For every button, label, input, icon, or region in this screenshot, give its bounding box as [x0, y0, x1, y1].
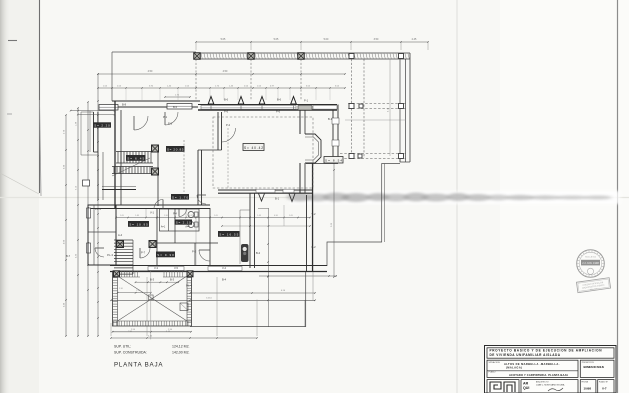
- pergola hatched column C: [298, 53, 305, 60]
- terrace interior dim rows: [136, 281, 179, 283]
- pergola row3 columns: [349, 154, 354, 159]
- svg-text:(MALAGA): (MALAGA): [506, 366, 522, 370]
- svg-text:B-2: B-2: [311, 245, 316, 249]
- terrace outline: [113, 271, 192, 326]
- stairs upper flight (horizontal, vertical rungs): [117, 152, 119, 164]
- svg-text:PLANO Nº: PLANO Nº: [599, 380, 608, 383]
- bottom extension verticals: [146, 277, 148, 336]
- svg-text:B-3: B-3: [170, 278, 175, 282]
- top-left dim arrows: [71, 110, 115, 112]
- svg-text:P-6: P-6: [276, 110, 281, 114]
- inner dashed rect salon: [227, 128, 229, 190]
- svg-text:AR: AR: [523, 381, 529, 385]
- svg-text:S= 6.45: S= 6.45: [127, 157, 144, 161]
- svg-text:4.50: 4.50: [223, 70, 228, 73]
- svg-text:BONIFACIO SOLIS: BONIFACIO SOLIS: [584, 365, 605, 369]
- interior dim line kitchen: [258, 208, 269, 210]
- svg-text:P.L-5: P.L-5: [95, 207, 101, 211]
- svg-text:B-1: B-1: [275, 197, 280, 201]
- svg-text:5.05: 5.05: [221, 38, 226, 41]
- door P-3 arc: [199, 250, 210, 261]
- interior dim verticals small: [145, 208, 147, 218]
- window B-5 on entry wall: [167, 104, 192, 110]
- svg-text:A=4: A=4: [185, 226, 190, 229]
- right outline step path: [400, 158, 410, 162]
- svg-text:V-3: V-3: [154, 266, 158, 270]
- stairs second flight: [113, 167, 115, 174]
- title promotor box: [580, 360, 614, 377]
- salon bottom wall y190: [218, 189, 313, 191]
- fold line vertical left: [39, 0, 41, 193]
- svg-text:FECHA: FECHA: [582, 380, 589, 383]
- pergola internal dim verticals: [389, 59, 391, 156]
- bottom wall: [110, 265, 327, 267]
- terrace diagonals: [118, 276, 188, 321]
- svg-text:V-2: V-2: [312, 212, 316, 216]
- window B-8 left of entry wall: [99, 105, 118, 111]
- top wall right segment: [298, 106, 312, 111]
- svg-text:124,12 M2.: 124,12 M2.: [172, 345, 190, 349]
- svg-text:S= 16.55: S= 16.55: [219, 233, 238, 237]
- svg-text:B-6: B-6: [224, 98, 229, 102]
- svg-text:S= 40.42: S= 40.42: [244, 146, 263, 150]
- svg-text:V-7: V-7: [602, 386, 607, 390]
- kitchen right wall: [249, 193, 251, 268]
- svg-text:S= 2.10: S= 2.10: [176, 221, 191, 225]
- svg-text:142,00 M2.: 142,00 M2.: [172, 351, 190, 355]
- svg-text:1.05: 1.05: [289, 215, 293, 217]
- entry porch thin edges: [80, 112, 82, 155]
- left vertical dimension lines: [65, 115, 67, 336]
- svg-text:SUP. UTIL:: SUP. UTIL:: [114, 345, 131, 349]
- svg-text:2 2 JUN. 1998: 2 2 JUN. 1998: [582, 261, 599, 265]
- svg-text:SUP. CONSTRUIDA:: SUP. CONSTRUIDA:: [114, 351, 147, 355]
- svg-text:B-7: B-7: [66, 254, 71, 258]
- left dim ticks: [65, 114, 67, 116]
- dimension line 4.50: [98, 73, 345, 75]
- svg-text:S= 20.85: S= 20.85: [167, 148, 184, 152]
- pencil mark left margin: [8, 40, 17, 42]
- bath toilet: [188, 212, 194, 218]
- svg-text:5.05: 5.05: [274, 38, 279, 41]
- kitchen counter line: [239, 210, 241, 264]
- title fecha box: [580, 380, 596, 393]
- pergola hatched column A: [194, 53, 201, 60]
- svg-text:QUI: QUI: [523, 386, 529, 390]
- left scan shadow: [0, 0, 10, 393]
- diagonal crease bottom of left fold: [0, 173, 39, 194]
- svg-text:P-5: P-5: [168, 122, 173, 126]
- terrace center square: [149, 295, 154, 300]
- svg-text:P.L-4: P.L-4: [186, 284, 192, 288]
- svg-text:DE VIVIENDA UNIFAMILIAR AISLAD: DE VIVIENDA UNIFAMILIAR AISLADA: [490, 353, 561, 357]
- building right wall lower: [306, 195, 308, 272]
- fridge dark appliance: [241, 244, 249, 262]
- terrace drain box: [180, 303, 188, 311]
- stairs lower flight: [114, 239, 133, 241]
- salon right wall: [299, 110, 301, 134]
- svg-text:A-4: A-4: [118, 233, 123, 237]
- label S=1.70 dark: [171, 194, 189, 200]
- maze logo: [490, 382, 515, 392]
- top wall window band: [198, 104, 337, 106]
- fold line horizontal mid sheet: [0, 197, 629, 199]
- svg-text:B-5: B-5: [173, 105, 178, 109]
- hall dashed line: [183, 140, 185, 192]
- label S=20.85 dark: [166, 146, 185, 152]
- svg-text:PLANTA BAJA: PLANTA BAJA: [114, 362, 163, 369]
- title row situacion/plano: [487, 360, 578, 377]
- top dimension line row 1: [196, 41, 428, 43]
- svg-text:1.05: 1.05: [214, 215, 218, 217]
- svg-text:P-1: P-1: [163, 115, 168, 119]
- svg-text:PROYECTO BASICO Y DE EJECUCION: PROYECTO BASICO Y DE EJECUCION DE AMPLIA…: [490, 349, 603, 353]
- bottom dimension lines: [113, 331, 192, 333]
- window triangles on top wall: [208, 97, 214, 105]
- svg-text:S= 2.20: S= 2.20: [94, 124, 110, 128]
- roof overhang outline top-left: [112, 51, 196, 53]
- svg-text:P-4: P-4: [173, 213, 177, 216]
- terrace hatch top band segments: [113, 276, 141, 278]
- svg-text:B-4: B-4: [222, 278, 227, 282]
- svg-text:JUAN C. MONTIJANO MOLINA: JUAN C. MONTIJANO MOLINA: [536, 383, 565, 386]
- hall door arcs: [154, 200, 163, 209]
- extension verticals from dim row1: [195, 42, 197, 50]
- svg-text:1.05: 1.05: [120, 215, 124, 217]
- short extension lines to wall: [111, 88, 113, 100]
- svg-text:5.00: 5.00: [324, 38, 329, 41]
- label S=10.95 dark: [128, 221, 149, 227]
- svg-text:3.50: 3.50: [374, 38, 379, 41]
- title block outer frame: [485, 346, 617, 393]
- svg-text:0.97: 0.97: [189, 215, 193, 217]
- svg-text:V-1: V-1: [150, 211, 154, 215]
- svg-text:B-8: B-8: [122, 103, 127, 107]
- dimension line row 3: [98, 87, 345, 89]
- blurred watermark band: [290, 191, 620, 204]
- salon left wall upper: [217, 112, 219, 150]
- salon bottom dashed ceiling: [213, 117, 313, 188]
- down triangle marks on salon bottom wall: [259, 194, 265, 202]
- svg-text:SITUACION:: SITUACION:: [489, 361, 501, 364]
- porch edge pillar left: [83, 180, 90, 186]
- label S=8.54: [324, 157, 343, 164]
- title bottom row: logo box: [487, 380, 519, 393]
- svg-text:PLANO:: PLANO:: [489, 371, 497, 374]
- left lower protrusion rooms: [88, 205, 116, 265]
- svg-text:S= 8.54: S= 8.54: [325, 159, 342, 163]
- svg-text:1.98: 1.98: [136, 290, 140, 292]
- small dim 1.70 above window: [165, 96, 190, 98]
- label S=40.42: [243, 144, 264, 151]
- svg-text:S= 10.95: S= 10.95: [129, 223, 148, 227]
- entry door P-1 arc: [134, 116, 148, 130]
- svg-text:V-5: V-5: [174, 266, 178, 270]
- svg-text:ALTOS DE MARBELLA -MARBELLA-: ALTOS DE MARBELLA -MARBELLA-: [504, 362, 560, 366]
- terrace hatch bottom band: [113, 320, 192, 322]
- bath dark label: [175, 220, 193, 225]
- svg-text:1.48: 1.48: [135, 215, 139, 217]
- svg-text:PROMOTOR:: PROMOTOR:: [582, 362, 595, 364]
- interior dim line across rooms: [116, 217, 310, 219]
- corridor / bath walls: [156, 208, 158, 265]
- svg-text:S= 1.70: S= 1.70: [172, 195, 188, 199]
- pergola dashed post lines down: [195, 59, 197, 100]
- stair columns hatched: [152, 145, 159, 152]
- svg-text:P-1: P-1: [304, 99, 309, 103]
- title row project name: [487, 348, 614, 358]
- stair block bottom wall: [102, 189, 136, 191]
- svg-text:13.10: 13.10: [206, 297, 212, 299]
- pergola open column E: [399, 54, 404, 59]
- terrace hatch right band: [186, 271, 188, 326]
- svg-text:ACOTADO Y CARPINTERIA. PLANTA: ACOTADO Y CARPINTERIA. PLANTA BAJA: [509, 373, 568, 377]
- pergola top beam: [196, 52, 410, 54]
- label S=2.20 dark: [93, 122, 111, 127]
- terrace center vertical dim: [150, 271, 152, 339]
- right pergola beam row 2: [348, 103, 406, 105]
- pergola open column D: [349, 54, 354, 59]
- right pergola beam row 3: [340, 153, 406, 155]
- porch bottom connector y163: [306, 163, 338, 165]
- circular stamp: [577, 250, 605, 278]
- label S=9.30 dark: [156, 252, 175, 258]
- svg-text:1.90: 1.90: [119, 288, 123, 290]
- svg-text:2.45: 2.45: [412, 38, 417, 41]
- svg-text:P.L-3: P.L-3: [107, 253, 113, 257]
- hall wall jog: [198, 149, 222, 151]
- door P-2 arc: [222, 128, 236, 142]
- small door arc left room: [95, 248, 104, 257]
- west wall small window rects: [87, 208, 91, 218]
- svg-text:P-7: P-7: [141, 251, 146, 255]
- svg-text:10/98: 10/98: [584, 386, 592, 390]
- svg-text:V-4: V-4: [222, 266, 226, 270]
- svg-text:P-6: P-6: [224, 110, 229, 114]
- porch right wall column strip: [332, 110, 334, 163]
- label S=16.55 dark: [218, 231, 240, 237]
- svg-text:4.50: 4.50: [274, 215, 278, 217]
- fireplace bay: [305, 134, 321, 163]
- svg-text:S= 9.30: S= 9.30: [157, 253, 174, 257]
- stair direction arrow: [112, 158, 150, 176]
- entry block top-left walls: [112, 100, 200, 102]
- title arquitecto box: [521, 380, 578, 393]
- svg-text:A=1: A=1: [161, 226, 166, 229]
- mid wall y205 left block: [88, 204, 210, 206]
- svg-text:B-1: B-1: [328, 117, 333, 121]
- svg-text:P-2: P-2: [192, 250, 197, 254]
- terrace corner columns: [114, 271, 120, 277]
- entry porch side wall: [93, 112, 95, 152]
- title plano num box: [598, 380, 614, 393]
- door P-7 arc: [140, 248, 150, 258]
- pergola row2 columns: [349, 104, 354, 109]
- door P-5 arc: [165, 112, 178, 125]
- window mullion ticks: [210, 106, 212, 110]
- bath door arc: [179, 209, 187, 217]
- fold line vertical center-right: [456, 0, 458, 393]
- svg-text:1.43: 1.43: [257, 215, 261, 217]
- svg-text:ARQUITECTO:: ARQUITECTO:: [536, 381, 549, 384]
- bathroom inner box: [160, 209, 200, 231]
- left wall continuation below porch: [97, 152, 99, 200]
- svg-text:M A L A G A: M A L A G A: [585, 256, 596, 259]
- bottom wall windows: [148, 267, 184, 271]
- rotated rect stamp: [576, 278, 610, 293]
- left outer wall: [114, 101, 116, 208]
- svg-text:B-3: B-3: [150, 278, 155, 282]
- svg-text:B-6: B-6: [277, 98, 282, 102]
- bath bidet: [188, 222, 194, 228]
- svg-text:P-2: P-2: [226, 123, 231, 127]
- terrace hatch left band: [117, 271, 119, 326]
- svg-text:4.50: 4.50: [148, 70, 153, 73]
- right pergola verticals: [351, 59, 353, 158]
- svg-text:1.50: 1.50: [164, 215, 168, 217]
- sheet right edge line: [617, 0, 619, 393]
- label S=6.45 dark: [126, 155, 146, 161]
- pergola hatched column B: [248, 53, 255, 60]
- svg-text:B-2: B-2: [256, 251, 261, 255]
- stairwell right wall: [157, 148, 159, 206]
